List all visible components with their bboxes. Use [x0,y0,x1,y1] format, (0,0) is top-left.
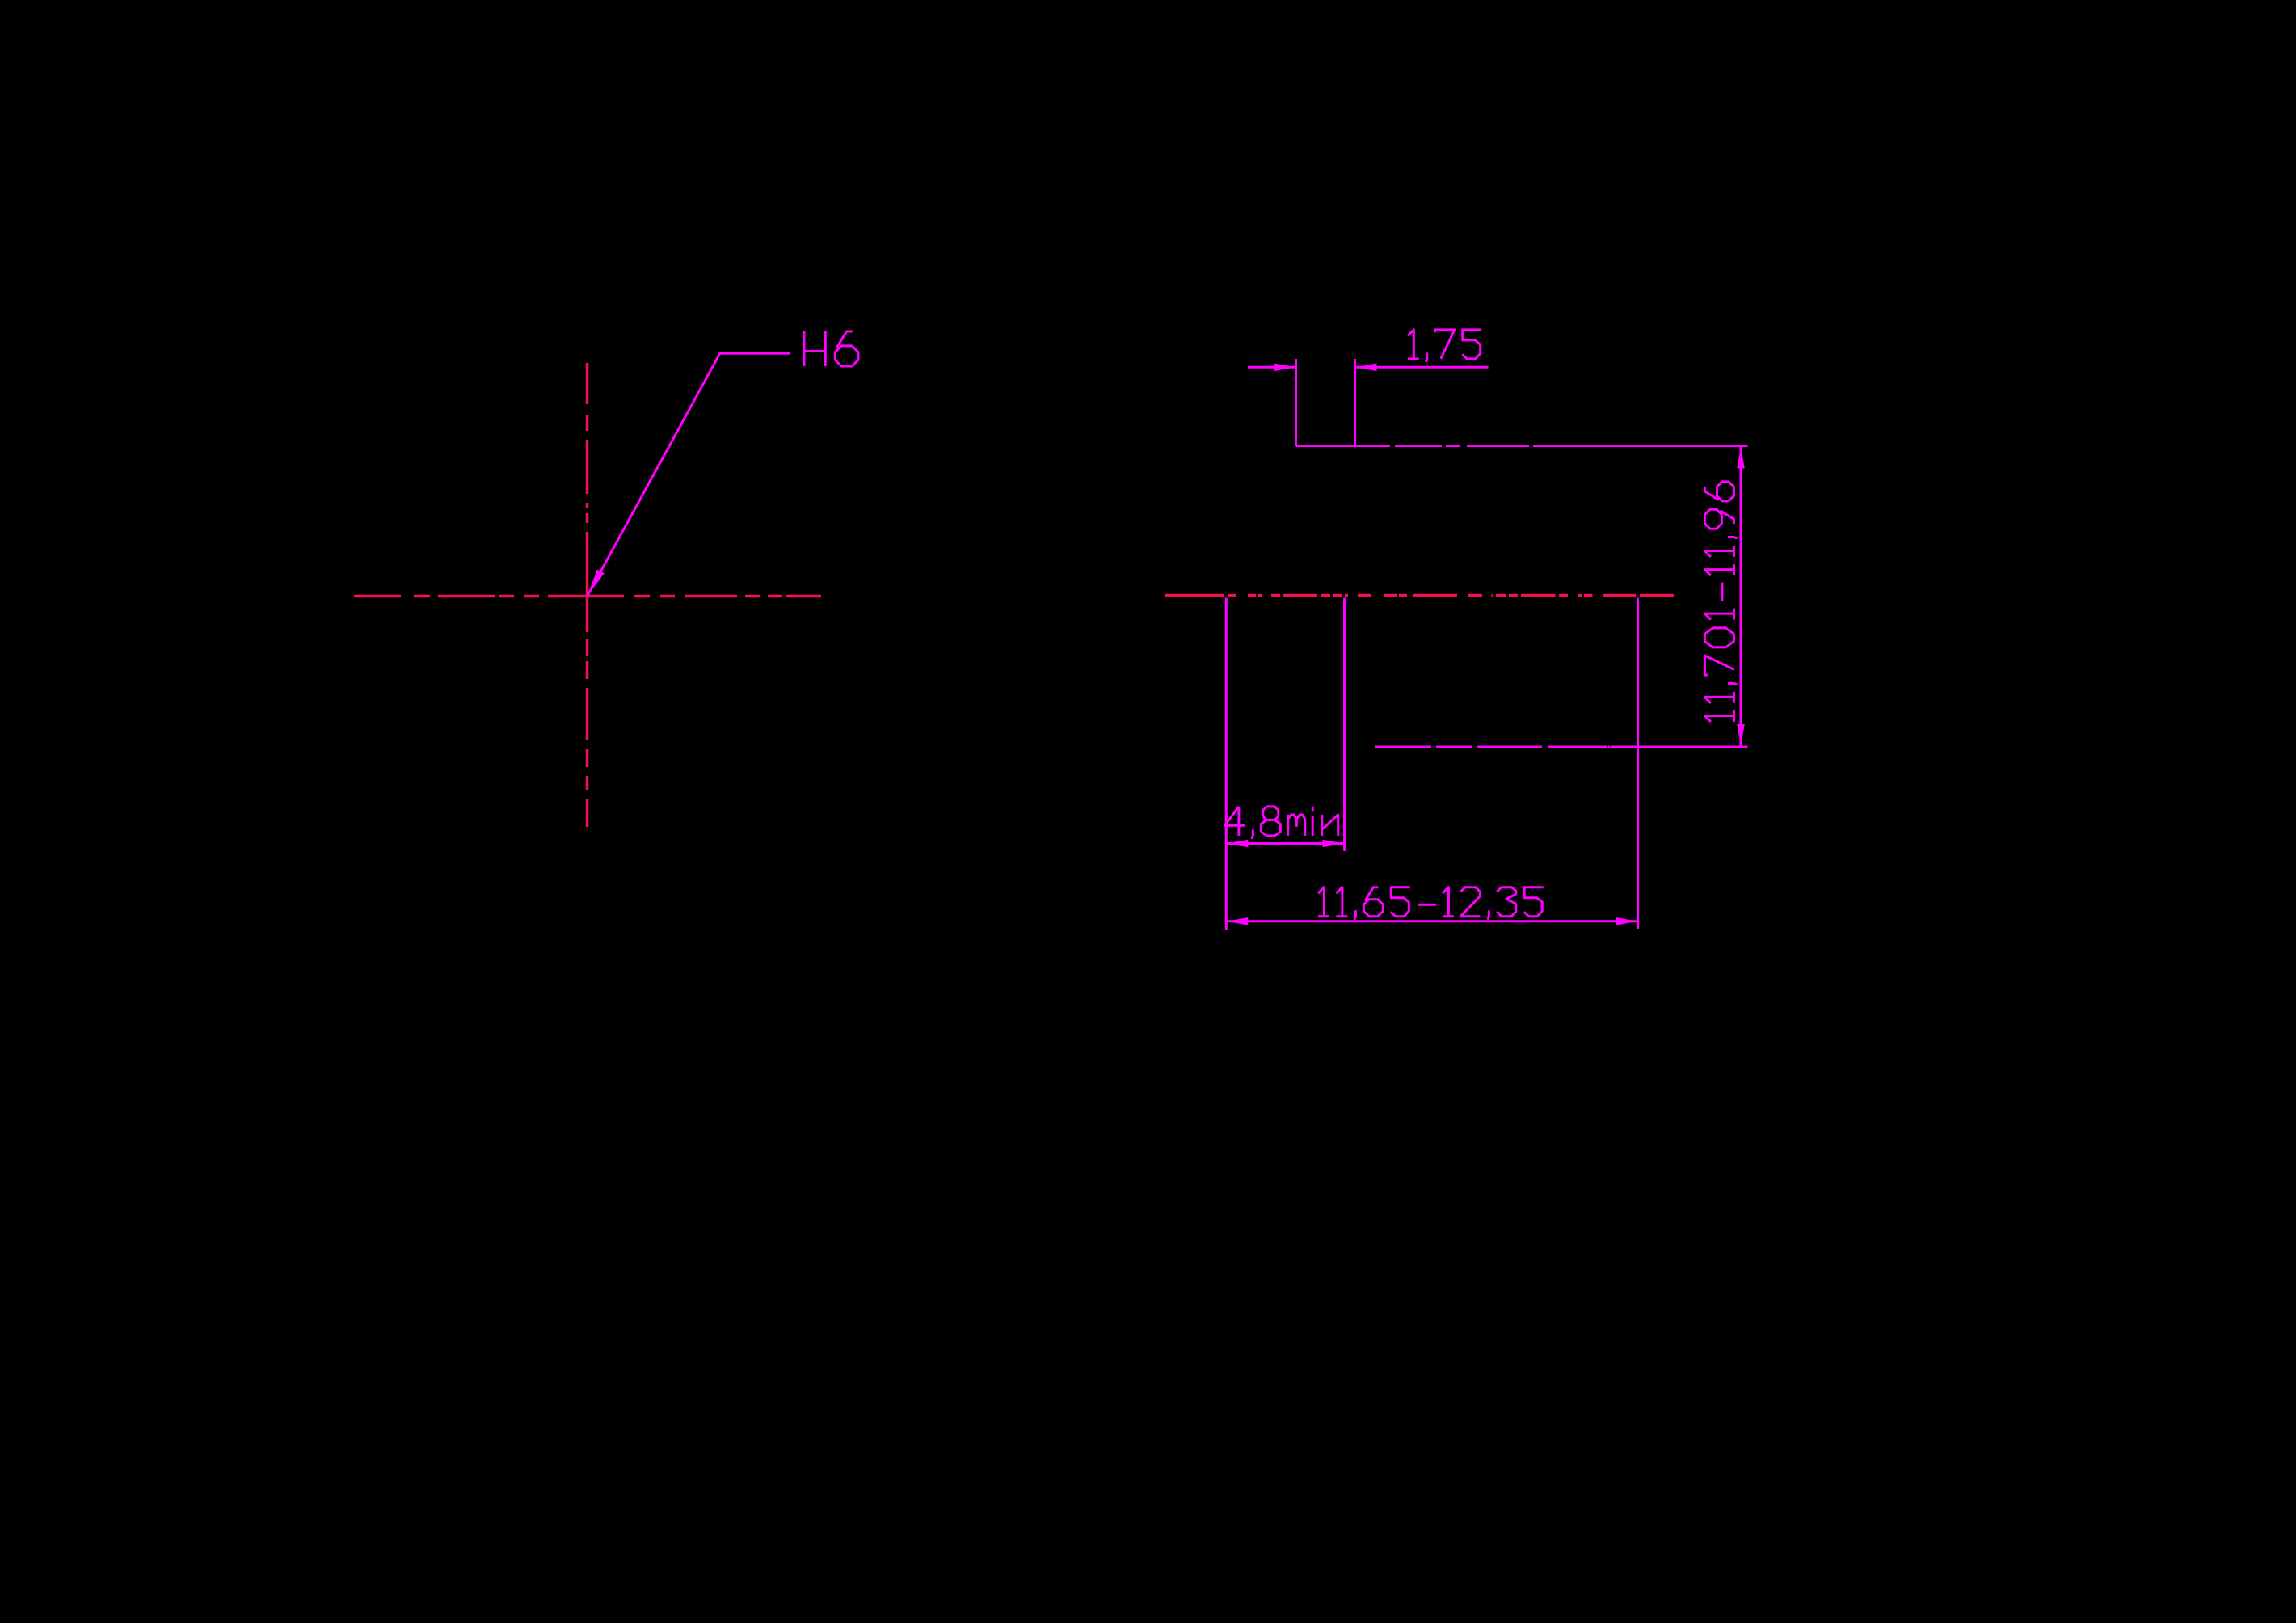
dimension 11.65-12.35 : value text 11,65-12,35 [1318,887,1544,920]
dimension 4.8min : left extension line (shared with 11.65-12.35) [1225,598,1228,930]
dimension 11.701-11.96 : vertical dimension line [1740,447,1742,747]
dimension 1.75 : extension line 1 [1295,359,1297,446]
dimension 1.75 : extension line 2 [1354,359,1356,446]
wire : red horizontal center line (left view) [354,595,821,598]
dimension 11.701-11.96 : value text (rotated) [1704,482,1737,722]
wire : leader line from H6 label to center [588,353,790,596]
dimension 4.8min : dimension line [1226,842,1344,845]
dimension 4.8min : right extension line [1343,598,1346,852]
wire : red vertical center line (left view) [586,363,589,827]
dimension 11.65-12.35 : right extension line [1637,598,1639,930]
dimension 11.65-12.35 : dimension line [1226,920,1637,922]
node H6 : bore tolerance label text [804,331,825,366]
dimension 1.75 : value text 1,75 [1408,330,1481,362]
node A : hole center mark, left view [354,363,821,827]
leader arrowhead at center [588,569,605,596]
wire : flange top hidden line (magenta dashed) [1296,445,1748,447]
wire : red horizontal center line (right view) [1165,594,1674,597]
dimension 4.8min : value text 4,8min [1224,807,1338,839]
dimension 1.75 : right dimension line [1355,366,1489,369]
wire : lower center line (magenta dash-dot) [1375,746,1748,748]
dimension 1.75 : left dimension line [1248,366,1296,369]
